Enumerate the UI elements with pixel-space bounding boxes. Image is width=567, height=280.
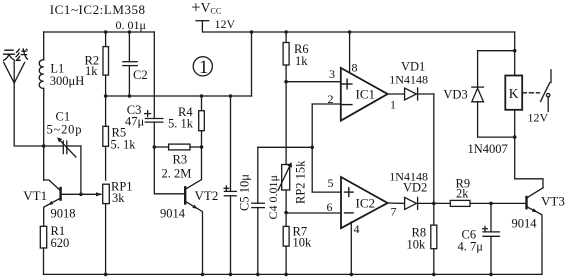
wire IC2 output [388,202,405,204]
resistor R1 [40,226,46,274]
wire C3 vertical from top-left rail [153,32,155,119]
wire pin2 riser [311,104,313,192]
node C6 bottom [489,273,493,277]
resistor R7 [283,213,289,275]
svg-text:2: 2 [328,92,334,106]
node R4 top on mid rail [200,94,204,98]
svg-text:300μH: 300μH [50,74,84,88]
node A junction (L1/antenna/C1/VT1-collector) [42,144,46,148]
potentiometer RP2 [278,162,292,212]
node VCC rail / mid-rail riser [250,30,254,34]
svg-text:2. 2M: 2. 2M [162,167,192,181]
node R7 bottom [284,273,288,277]
resistor R9 [434,200,491,206]
diode VD1 [405,88,434,100]
svg-text:12V: 12V [528,111,549,125]
svg-text:5. 1k: 5. 1k [168,117,194,131]
node relay bottom / VD3 junction [513,135,517,139]
svg-text:9014: 9014 [160,207,186,221]
svg-text:1k: 1k [295,54,308,68]
svg-text:VT3: VT3 [541,194,565,209]
svg-text:IC1: IC1 [356,86,376,101]
svg-text:4. 7μ: 4. 7μ [458,240,484,254]
svg-text:IC1~IC2:LM358: IC1~IC2:LM358 [50,2,146,17]
capacitor C2 [123,32,137,96]
svg-text:VT2: VT2 [195,188,219,203]
switch contact [541,70,552,112]
node pin8 on VCC rail [348,30,352,34]
wire IC1 pin3 [286,81,341,83]
capacitor C1 (variable 5~20p) [44,137,81,157]
resistor R2 [103,32,109,96]
node pin4 bottom [350,273,354,277]
wire VCC rail right end down to relay [514,32,516,76]
svg-text:2k: 2k [456,187,469,201]
svg-text:1k: 1k [85,64,98,78]
transistor VT3 [527,188,544,275]
svg-text:+VCC: +VCC [191,0,222,16]
wire mid rail right end up to VCC rail [251,32,253,96]
svg-text:10k: 10k [407,238,427,252]
resistor R6 [283,32,289,81]
node VD1/VD2/R8/R9 junction [432,202,436,206]
svg-text:5. 1k: 5. 1k [111,138,137,152]
svg-text:5: 5 [328,176,334,190]
diode VD2 [405,197,434,209]
wire R4 bottom to VT2 collector [201,147,203,180]
potentiometer RP1 [103,184,110,274]
wire IC1 pin2 [312,103,341,105]
wire base junction to VT3 [491,202,526,204]
svg-text:VD1: VD1 [401,60,425,74]
svg-text:VD3: VD3 [443,88,467,102]
transistor VT1 [44,180,102,226]
wire IC2 pin5 [312,191,341,193]
svg-text:0. 01μ: 0. 01μ [116,18,146,32]
node feedback riser junction [310,146,314,150]
svg-text:3k: 3k [112,191,125,205]
svg-text:RP2 15k: RP2 15k [294,160,308,204]
svg-text:C1: C1 [56,110,71,124]
node C2 top on rail [128,30,132,34]
svg-text:4: 4 [354,222,360,236]
node R6 top on VCC rail [284,30,288,34]
node R2 bottom [104,94,108,98]
label 天线 (antenna) [3,48,28,61]
wire IC2 pin6 [286,212,341,214]
node R3 left junction [153,145,157,149]
svg-text:7: 7 [391,205,397,219]
node R8 bottom [432,273,436,277]
node R3 right junction [200,145,204,149]
wire L1 bottom to node A [43,88,45,146]
resistor R4 [199,96,205,147]
node C2 bottom [128,94,132,98]
op-amp IC1 [341,68,388,121]
transistor VT2 [185,180,202,275]
resistor R8 [431,203,437,274]
svg-text:C2: C2 [133,68,148,82]
node C4 bottom [256,273,260,277]
node label circle 1 [193,57,212,78]
wire IC1 pin8 to VCC rail [349,32,351,73]
wire left vertical L1 line top [43,32,45,60]
svg-text:620: 620 [51,236,70,250]
capacitor C3 [145,111,163,147]
svg-text:C5 10μ: C5 10μ [237,174,251,211]
node RP1 bottom [104,273,108,277]
node R9/C6/VT3-base junction [489,202,493,206]
svg-text:6: 6 [327,200,333,214]
svg-text:IC2: IC2 [356,195,376,210]
wire relay node to VT3 collector [515,137,543,188]
capacitor C5 [224,96,236,274]
node C5 top on mid rail [229,94,233,98]
wire C4 top to pin2/pin5 riser [258,146,312,148]
svg-text:10k: 10k [293,236,313,250]
svg-text:12V: 12V [215,17,236,31]
antenna [4,62,44,146]
wire mid rail (rail96) [106,95,252,97]
wire bottom rail [44,273,543,275]
wire node A down to VT1 collector corner [43,146,45,180]
inductor L1 [39,60,43,89]
wire VD1 output down to VD2 junction [433,94,435,203]
wire IC1 output [388,93,405,95]
capacitor C4 [252,147,264,274]
node C1/base junction [79,193,83,197]
wire C1 right drop to base wire [80,146,82,194]
node VT2 emitter bottom [201,273,205,277]
wire R6 junction down to RP2 (crosses feedback wire) [285,81,287,164]
node R2 top on rail [104,30,108,34]
svg-text:8: 8 [352,61,358,75]
node R6 bottom / pin3 junction [284,80,288,84]
power +VCC symbol [196,21,515,32]
resistor R3 [154,144,201,150]
wire C3 node down to VT2 base [154,147,184,194]
node C5 bottom [229,273,233,277]
svg-text:9014: 9014 [512,217,538,231]
wire top-left rail [44,31,155,33]
relay contact dashed link [522,92,539,94]
svg-text:K: K [509,86,519,101]
capacitor C6 [483,203,500,274]
op-amp IC2 [341,177,388,228]
svg-text:1: 1 [199,58,208,78]
svg-text:1: 1 [390,98,396,112]
svg-text:5~20p: 5~20p [47,123,83,137]
wire IC2 pin4 to ground rail [350,222,352,275]
svg-text:9018: 9018 [51,207,76,221]
diode VD3 (1N4007) [472,51,515,137]
svg-text:VT1: VT1 [23,188,47,203]
svg-text:3: 3 [329,67,335,81]
svg-text:47μ: 47μ [125,115,145,129]
svg-text:VD2: VD2 [403,180,427,194]
svg-text:R3: R3 [173,153,188,167]
svg-text:C4 0.01μ: C4 0.01μ [266,175,280,219]
resistor R5 [103,96,109,180]
node RP2 bottom / pin6 junction [284,211,288,215]
relay K coil [505,76,522,138]
svg-text:1N4007: 1N4007 [468,142,508,156]
svg-text:1N4148: 1N4148 [389,73,428,87]
node VD3 top junction [513,49,517,53]
